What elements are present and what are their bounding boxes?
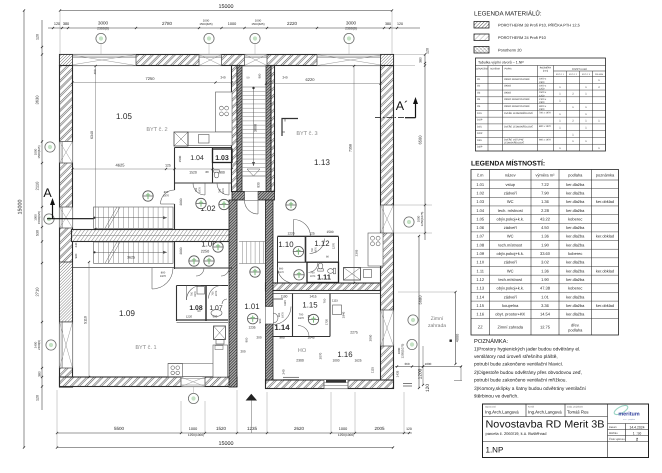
svg-text:1.07: 1.07 xyxy=(209,305,222,312)
svg-text:1500(825): 1500(825) xyxy=(251,22,264,26)
wall stub 1.15 left xyxy=(273,298,283,300)
svg-text:1000: 1000 xyxy=(339,427,347,431)
svg-text:ker.obklad: ker.obklad xyxy=(596,268,614,273)
wall 1.06 bottom xyxy=(175,267,233,269)
svg-text:1.15: 1.15 xyxy=(476,303,485,308)
svg-text:1.12: 1.12 xyxy=(476,277,485,282)
svg-text:380: 380 xyxy=(419,57,423,63)
svg-text:1.01: 1.01 xyxy=(244,302,259,311)
svg-text:zahrada: zahrada xyxy=(428,323,446,329)
window W-left-A xyxy=(60,207,73,228)
counter line 1.13 xyxy=(344,267,384,269)
vent markers 1.06 xyxy=(213,242,223,252)
svg-text:1250(1075): 1250(1075) xyxy=(420,212,424,227)
svg-text:OKNO FRANCOUZSKÉ: OKNO FRANCOUZSKÉ xyxy=(504,104,530,108)
svg-text:D3/P: D3/P xyxy=(477,146,483,149)
svg-text:1250(1000): 1250(1000) xyxy=(188,433,204,437)
wall 1.07/1.08 bottom xyxy=(177,319,229,321)
wall 1.04 left xyxy=(174,148,176,191)
svg-text:tech.místnost: tech.místnost xyxy=(498,242,523,247)
svg-text:Zimní: Zimní xyxy=(431,316,444,322)
svg-text:200: 200 xyxy=(240,350,245,354)
dim top chain xyxy=(48,27,420,29)
wall bottom byt1 xyxy=(60,377,238,387)
svg-text:1.14: 1.14 xyxy=(274,323,290,332)
winter garden corner bracket xyxy=(460,367,462,381)
svg-text:OKNO: OKNO xyxy=(504,91,511,94)
wall 1.06 left xyxy=(174,242,176,270)
svg-text:obýv.pokoj+k.k.: obýv.pokoj+k.k. xyxy=(497,216,524,221)
box X 1.13 xyxy=(344,268,361,281)
svg-text:D1/L: D1/L xyxy=(477,112,483,115)
svg-text:ker.dlažba: ker.dlažba xyxy=(566,277,585,282)
dim right upper chain xyxy=(424,54,426,240)
dim bottom 15000 xyxy=(57,447,393,449)
svg-text:1.90: 1.90 xyxy=(541,242,550,247)
table vyplni otvoru xyxy=(476,58,606,151)
svg-text:POPIS: POPIS xyxy=(505,68,512,71)
svg-text:1.07: 1.07 xyxy=(476,234,485,239)
svg-text:1.15: 1.15 xyxy=(302,301,318,310)
svg-text:2)Digestoře budou odvětrány př: 2)Digestoře budou odvětrány přes obvodov… xyxy=(474,370,582,376)
toilet 1.12 xyxy=(318,263,324,271)
dim winter garden bottom xyxy=(395,366,462,368)
washer box 1.08 xyxy=(197,287,205,295)
svg-text:4000: 4000 xyxy=(456,334,460,342)
svg-text:1625: 1625 xyxy=(354,359,361,363)
svg-text:ker.obklad: ker.obklad xyxy=(596,234,614,239)
svg-text:1415: 1415 xyxy=(309,295,316,299)
threshold marks xyxy=(403,383,412,385)
corner mark 1.13 xyxy=(282,119,298,137)
svg-text:1970: 1970 xyxy=(310,275,316,278)
svg-text:6500: 6500 xyxy=(418,135,423,145)
svg-text:120: 120 xyxy=(426,48,430,54)
svg-text:ker.dlažba: ker.dlažba xyxy=(566,294,585,299)
svg-text:43.22: 43.22 xyxy=(540,216,551,221)
entrance threshold bar xyxy=(326,380,346,383)
svg-text:1.08: 1.08 xyxy=(476,242,485,247)
toilet 1.07 bottom xyxy=(211,310,222,317)
svg-text:1.10: 1.10 xyxy=(278,240,294,249)
svg-text:33.60: 33.60 xyxy=(540,251,551,256)
svg-text:2620: 2620 xyxy=(294,426,305,431)
svg-text:Číslo výkresu: Číslo výkresu xyxy=(609,437,625,441)
svg-text:900 x 1970: 900 x 1970 xyxy=(539,139,552,142)
wall 1.15 top xyxy=(273,293,381,295)
svg-text:koberec: koberec xyxy=(568,251,582,256)
svg-text:1.01: 1.01 xyxy=(541,294,550,299)
svg-text:ventilátory nad úroveň střešní: ventilátory nad úroveň střešního pláště, xyxy=(474,354,558,360)
svg-text:1.09: 1.09 xyxy=(476,251,485,256)
svg-text:2365: 2365 xyxy=(355,249,359,256)
svg-text:1.12: 1.12 xyxy=(314,239,329,248)
wall 1.11 top xyxy=(278,261,308,263)
svg-text:1520: 1520 xyxy=(216,426,227,431)
door arcs 1.06 interior xyxy=(196,268,204,276)
svg-text:Tabulka výplní otvorů – 1.NP: Tabulka výplní otvorů – 1.NP xyxy=(478,60,524,64)
svg-text:1270: 1270 xyxy=(332,242,336,249)
wall 1.12 right xyxy=(338,237,340,263)
svg-text:1.03: 1.03 xyxy=(476,199,485,204)
svg-text:1.06: 1.06 xyxy=(476,225,485,230)
wall 1.10/1.12 divider xyxy=(305,237,307,263)
wall 1.07/1.08 divider xyxy=(205,286,207,322)
svg-text:1.01: 1.01 xyxy=(476,182,485,187)
title block data rows xyxy=(608,423,649,425)
svg-text:1.03: 1.03 xyxy=(215,155,229,162)
dim winter garden 4000 xyxy=(455,292,457,364)
svg-text:1970: 1970 xyxy=(222,188,225,194)
window W-right-2 xyxy=(381,310,394,346)
svg-text:125: 125 xyxy=(309,232,315,236)
svg-text:vstup: vstup xyxy=(505,182,515,187)
svg-text:meritum: meritum xyxy=(618,412,639,418)
window W-right-1 xyxy=(381,205,394,233)
stove byt3 xyxy=(371,236,375,240)
svg-text:D3/L: D3/L xyxy=(477,139,483,142)
svg-text:BYT č. 2: BYT č. 2 xyxy=(569,73,578,76)
svg-text:700: 700 xyxy=(323,298,327,303)
svg-text:6340: 6340 xyxy=(90,131,94,139)
svg-text:obyt. prostor+KK: obyt. prostor+KK xyxy=(495,312,525,317)
svg-text:Porotherm 20: Porotherm 20 xyxy=(498,48,522,53)
svg-text:80: 80 xyxy=(205,170,209,174)
svg-text:1115: 1115 xyxy=(283,300,287,306)
svg-text:1000: 1000 xyxy=(332,359,339,363)
toilet 1.03 xyxy=(214,170,220,178)
svg-text:14.4.2024: 14.4.2024 xyxy=(629,425,644,429)
svg-text:15000: 15000 xyxy=(18,200,24,215)
svg-text:ZZ: ZZ xyxy=(478,325,483,330)
wall 1.15 bottom xyxy=(273,336,330,338)
corridor wall left xyxy=(229,200,237,387)
svg-text:1970: 1970 xyxy=(281,312,284,318)
svg-text:1.04: 1.04 xyxy=(476,208,485,213)
kitchen 1.13 counter xyxy=(368,233,383,266)
kitchen 1.09 counter xyxy=(168,363,213,365)
left window markers xyxy=(45,142,55,152)
corner blocks dense xyxy=(60,55,73,66)
toilet 1.15 xyxy=(308,315,314,323)
svg-text:2070: 2070 xyxy=(319,352,323,359)
dim 1.10 row xyxy=(278,235,339,237)
svg-text:2220: 2220 xyxy=(287,21,298,26)
box small 1.13 xyxy=(364,270,372,278)
svg-text:120: 120 xyxy=(36,34,40,40)
svg-text:1970: 1970 xyxy=(160,275,166,278)
svg-text:1.36: 1.36 xyxy=(541,199,550,204)
svg-text:7.90: 7.90 xyxy=(541,190,550,195)
svg-text:3000: 3000 xyxy=(98,21,109,26)
svg-text:7.22: 7.22 xyxy=(541,182,550,187)
svg-text:1.02: 1.02 xyxy=(476,190,485,195)
svg-text:15000: 15000 xyxy=(219,4,234,10)
svg-text:Tomáš Ros: Tomáš Ros xyxy=(567,410,589,415)
svg-text:SCHÉMA: SCHÉMA xyxy=(490,68,500,71)
stair wall left vertical xyxy=(232,66,238,192)
svg-text:2005: 2005 xyxy=(374,426,385,431)
svg-text:WC: WC xyxy=(507,199,514,204)
svg-text:380: 380 xyxy=(385,22,391,26)
svg-text:BYT č. 1: BYT č. 1 xyxy=(135,344,156,351)
dim vertical 1200 line xyxy=(422,346,424,385)
kitchen 1.05 counter vertical xyxy=(216,92,233,132)
svg-text:1.16: 1.16 xyxy=(476,312,485,317)
svg-text:poznámka: poznámka xyxy=(596,172,615,177)
svg-text:240: 240 xyxy=(282,76,287,80)
svg-text:1)Prostory hygienických jader: 1)Prostory hygienických jader budou odvě… xyxy=(474,347,580,353)
svg-text:530: 530 xyxy=(36,230,40,236)
svg-text:120: 120 xyxy=(397,22,403,26)
svg-text:120: 120 xyxy=(406,427,412,431)
svg-text:3630: 3630 xyxy=(35,95,40,105)
door arc 1.10 southwest xyxy=(278,267,294,283)
svg-text:380: 380 xyxy=(38,371,42,377)
window W-left-1 xyxy=(60,142,73,164)
entrance arrow xyxy=(246,394,257,401)
svg-text:7250: 7250 xyxy=(146,76,156,81)
svg-text:1.11: 1.11 xyxy=(477,268,485,273)
svg-text:5680: 5680 xyxy=(418,295,423,305)
svg-text:obýv.pokoj+k.k.: obýv.pokoj+k.k. xyxy=(497,286,524,291)
svg-text:OKNO FRANCOUZSKÉ: OKNO FRANCOUZSKÉ xyxy=(504,97,530,101)
svg-text:240: 240 xyxy=(282,369,286,374)
wall jog horizontal xyxy=(232,192,275,201)
svg-text:1.13: 1.13 xyxy=(476,286,485,291)
corridor wall right xyxy=(266,200,274,380)
svg-text:ker.dlažba: ker.dlažba xyxy=(566,208,585,213)
wall 1.04 top xyxy=(175,147,233,149)
svg-text:koberec: koberec xyxy=(568,286,582,291)
svg-text:1250(1000): 1250(1000) xyxy=(338,433,354,437)
svg-text:1500(825): 1500(825) xyxy=(37,145,41,158)
svg-text:D2/L: D2/L xyxy=(477,125,483,128)
svg-text:zádveří: zádveří xyxy=(504,190,518,195)
fridge box X byt2 xyxy=(174,132,188,146)
legend swatch porotherm38 xyxy=(474,22,489,29)
svg-text:1720: 1720 xyxy=(325,318,329,325)
svg-text:3)Komory,sklípky a šatny budou: 3)Komory,sklípky a šatny budou odvětrány… xyxy=(474,386,587,392)
svg-text:DVEŘE JEDNOKŘÍDLOVÉ: DVEŘE JEDNOKŘÍDLOVÉ xyxy=(504,124,533,128)
svg-text:obýv.pokoj+k.k.: obýv.pokoj+k.k. xyxy=(497,251,524,256)
svg-text:1.05: 1.05 xyxy=(476,216,485,221)
svg-text:1000: 1000 xyxy=(228,22,236,26)
svg-text:ker.obklad: ker.obklad xyxy=(596,199,614,204)
svg-text:koberec: koberec xyxy=(568,216,582,221)
party wall central horizontal xyxy=(72,230,233,242)
svg-text:D2/P: D2/P xyxy=(477,132,483,135)
svg-text:potrubí bude zakončeno ventila: potrubí bude zakončeno ventilační mřížko… xyxy=(474,378,567,384)
sink byt2 xyxy=(199,135,210,144)
svg-text:240: 240 xyxy=(74,242,78,247)
dim interior 4625 row xyxy=(73,168,233,170)
svg-text:900: 900 xyxy=(219,171,225,175)
svg-text:1000: 1000 xyxy=(425,362,432,366)
vent markers byt3 xyxy=(286,200,296,210)
wall 1.15 right xyxy=(329,294,331,337)
svg-text:1970: 1970 xyxy=(194,291,197,297)
svg-text:1200: 1200 xyxy=(418,368,424,379)
svg-text:č.m: č.m xyxy=(477,172,484,177)
threshold marks 1.16 west xyxy=(283,376,299,378)
svg-text:125: 125 xyxy=(165,164,171,168)
svg-text:360: 360 xyxy=(404,362,409,366)
door arc 1.04 b xyxy=(217,183,229,195)
window W-top-3 1000 xyxy=(245,55,268,66)
svg-text:Datum: Datum xyxy=(609,426,617,429)
svg-text:900: 900 xyxy=(245,337,249,342)
svg-text:120: 120 xyxy=(36,395,40,401)
svg-text:ker.dlažba: ker.dlažba xyxy=(566,260,585,265)
svg-text:120: 120 xyxy=(54,22,60,26)
door arc 1.12 xyxy=(310,239,325,254)
box below column xyxy=(216,340,224,345)
svg-text:120: 120 xyxy=(425,384,431,392)
column box X byt1 xyxy=(214,326,226,340)
svg-text:1.10: 1.10 xyxy=(476,260,485,265)
dim top 15000 xyxy=(60,10,392,12)
svg-text:1 : 50: 1 : 50 xyxy=(633,431,642,435)
svg-text:ROZMĚRY: ROZMĚRY xyxy=(540,67,552,70)
door arc corridor entry xyxy=(245,201,259,215)
svg-text:900: 900 xyxy=(213,315,218,319)
svg-text:štěrbinou ve dveřích.: štěrbinou ve dveřích. xyxy=(474,394,519,400)
svg-text:OZNAČENÍ: OZNAČENÍ xyxy=(476,68,488,71)
door arc 1.11 xyxy=(308,263,318,273)
wall top right-unit xyxy=(266,283,381,291)
door arc 1.10 entry xyxy=(294,220,311,237)
title block frame xyxy=(483,404,649,458)
stair upper horizontal xyxy=(94,207,174,228)
svg-text:1.NP: 1.NP xyxy=(486,446,504,455)
svg-text:1500(825): 1500(825) xyxy=(37,211,41,224)
wall left xyxy=(60,66,73,388)
door arc 1.07 xyxy=(209,286,222,299)
svg-text:1970: 1970 xyxy=(278,271,284,274)
legend swatch porotherm24 xyxy=(474,34,489,41)
svg-text:Zimní zahrada: Zimní zahrada xyxy=(497,325,523,330)
wall right xyxy=(381,66,394,389)
washbasin 1.07 xyxy=(222,299,227,304)
svg-text:POZNÁMKA:: POZNÁMKA: xyxy=(474,337,509,345)
svg-text:parcela č. 2060/19, k.ú. Buště: parcela č. 2060/19, k.ú. Buštěhrad xyxy=(486,431,547,436)
vent marker 1.15 xyxy=(308,314,318,324)
svg-text:1220: 1220 xyxy=(186,315,193,319)
svg-text:Zodp. projektant: Zodp. projektant xyxy=(567,406,583,409)
svg-text:WC: WC xyxy=(507,268,514,273)
svg-text:1235: 1235 xyxy=(247,426,258,431)
svg-text:1970: 1970 xyxy=(215,290,218,296)
svg-text:1.36: 1.36 xyxy=(541,234,550,239)
svg-text:ker.dlažba: ker.dlažba xyxy=(566,303,585,308)
svg-text:240: 240 xyxy=(220,76,225,80)
svg-text:4.50: 4.50 xyxy=(541,225,550,230)
svg-text:1435: 1435 xyxy=(396,370,400,377)
stair lower horizontal xyxy=(94,242,174,263)
wall bottom right-unit xyxy=(266,380,394,389)
svg-text:12.75: 12.75 xyxy=(540,325,551,330)
svg-text:1.09: 1.09 xyxy=(119,309,135,318)
right window markers xyxy=(404,217,414,227)
stove byt2 xyxy=(220,106,224,110)
svg-text:2110: 2110 xyxy=(35,181,40,190)
door arc 1.06 bottom xyxy=(152,268,173,289)
svg-text:1250(1075): 1250(1075) xyxy=(400,344,404,359)
svg-text:ker.dlažba: ker.dlažba xyxy=(566,242,585,247)
svg-text:2300: 2300 xyxy=(296,359,304,363)
svg-text:1000: 1000 xyxy=(189,427,197,431)
svg-text:Vypracoval: Vypracoval xyxy=(485,406,496,409)
stair wall right vertical xyxy=(266,66,271,192)
svg-text:1.05: 1.05 xyxy=(116,112,132,121)
svg-text:2780: 2780 xyxy=(162,21,173,26)
dim left 15000 xyxy=(23,11,25,448)
svg-text:tech.místnost: tech.místnost xyxy=(498,277,523,282)
svg-text:47.38: 47.38 xyxy=(540,286,551,291)
svg-text:název: název xyxy=(505,172,516,177)
svg-text:D1/P: D1/P xyxy=(477,119,483,122)
svg-text:3000: 3000 xyxy=(254,124,258,132)
svg-text:ker.dlažba: ker.dlažba xyxy=(566,234,585,239)
svg-text:zádveří: zádveří xyxy=(504,260,518,265)
svg-text:400: 400 xyxy=(93,69,97,74)
svg-text:ker.dlažba: ker.dlažba xyxy=(566,190,585,195)
svg-text:LEGENDA MÍSTNOSTÍ:: LEGENDA MÍSTNOSTÍ: xyxy=(471,159,545,168)
svg-text:Ing.Arch.Langová: Ing.Arch.Langová xyxy=(528,410,562,415)
door arc 1.08 xyxy=(187,286,202,301)
svg-text:Kreslil: Kreslil xyxy=(528,406,534,409)
svg-text:CELKEM: CELKEM xyxy=(595,73,604,76)
svg-text:1500: 1500 xyxy=(326,230,333,234)
svg-text:700 x 1970: 700 x 1970 xyxy=(539,112,552,115)
svg-text:BYT č. 1: BYT č. 1 xyxy=(556,73,565,76)
dim left chain xyxy=(41,20,43,410)
wall 1.10 top xyxy=(278,236,339,238)
wall left dense segment xyxy=(60,262,73,322)
svg-text:podlaha: podlaha xyxy=(568,328,583,333)
stove byt1 xyxy=(168,364,183,378)
bath 1.15 xyxy=(333,305,342,315)
top window markers xyxy=(100,33,102,54)
dim interior 5110 xyxy=(88,262,90,377)
svg-text:ker.dlažba: ker.dlažba xyxy=(566,268,585,273)
svg-text:5110: 5110 xyxy=(84,316,88,324)
svg-text:200: 200 xyxy=(256,336,261,340)
svg-text:2300(0): 2300(0) xyxy=(345,26,357,30)
svg-text:2060: 2060 xyxy=(369,334,373,341)
dim interior 6220 xyxy=(266,83,381,85)
svg-text:zádveří: zádveří xyxy=(504,225,518,230)
svg-text:3625: 3625 xyxy=(127,256,135,260)
svg-text:1500: 1500 xyxy=(178,155,182,162)
svg-text:2000: 2000 xyxy=(179,247,183,254)
svg-text:985: 985 xyxy=(279,336,285,340)
svg-text:Měřítko: Měřítko xyxy=(609,432,618,435)
svg-text:1.04: 1.04 xyxy=(190,155,204,162)
svg-text:1235: 1235 xyxy=(248,326,255,330)
wall 1.03 left xyxy=(212,148,214,184)
svg-text:HO: HO xyxy=(298,348,307,354)
wall 1.07/1.08 top xyxy=(177,285,229,287)
svg-text:14.54: 14.54 xyxy=(540,312,551,317)
svg-text:OKNO FRANCOUZSKÉ: OKNO FRANCOUZSKÉ xyxy=(504,77,530,81)
svg-text:POROTHERM 24 Profi P10: POROTHERM 24 Profi P10 xyxy=(498,35,547,40)
svg-text:1.13: 1.13 xyxy=(314,158,330,167)
svg-text:800 x 1970: 800 x 1970 xyxy=(539,125,552,128)
window W-bottom-1 xyxy=(181,377,205,387)
svg-text:výměra m²: výměra m² xyxy=(536,172,556,177)
